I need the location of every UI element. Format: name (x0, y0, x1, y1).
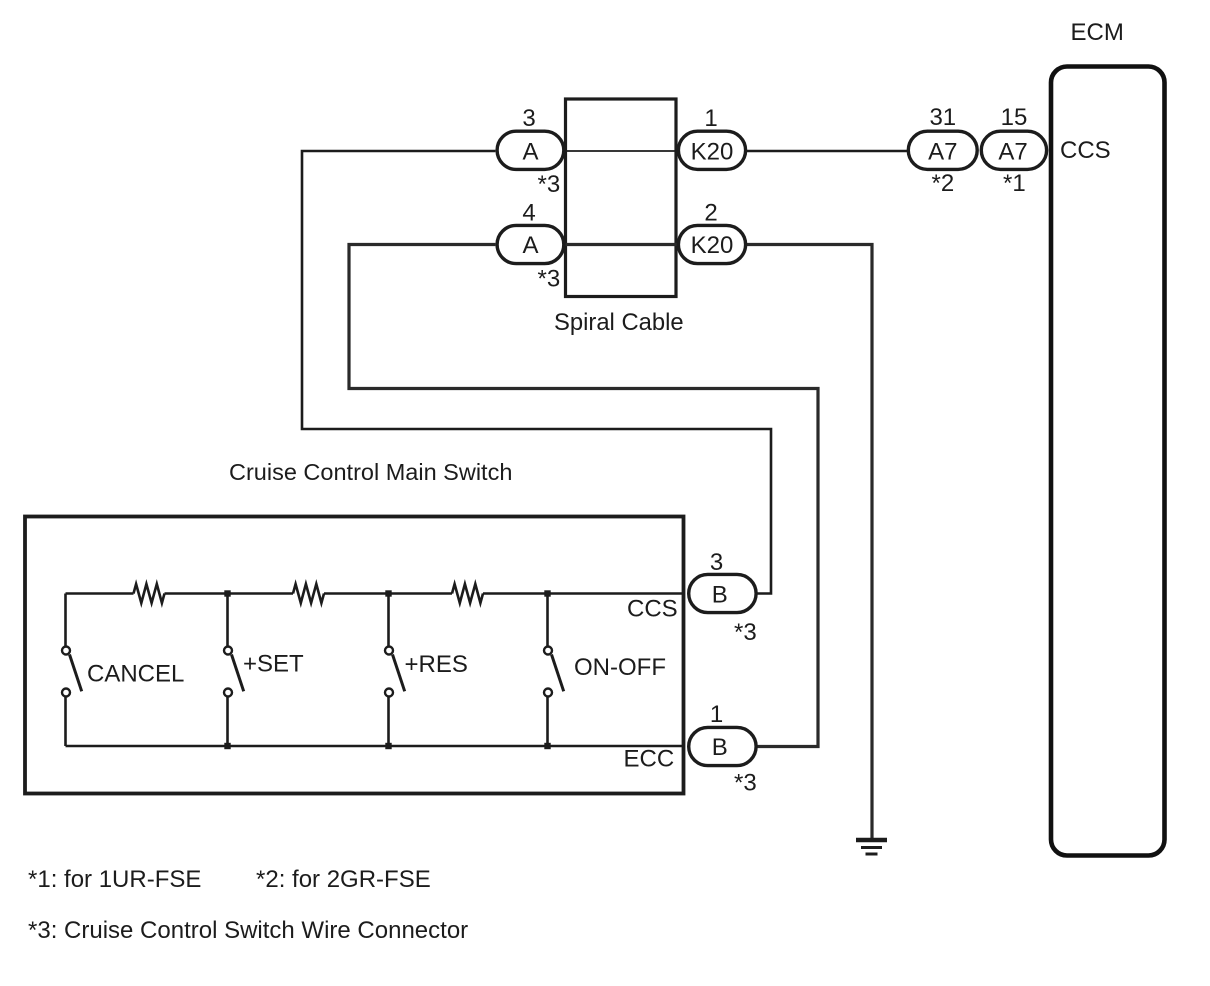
wire K20 pin1 to A7 pin31 (747, 150, 907, 153)
wire spiral cable internal pin4-pin2 (566, 243, 678, 246)
svg-text:A7: A7 (928, 139, 957, 166)
junction dot bottom RES (385, 743, 391, 749)
svg-text:Cruise Control Main Switch: Cruise Control Main Switch (229, 459, 512, 485)
svg-text:K20: K20 (691, 139, 734, 166)
junction dot top RES (385, 590, 391, 596)
junction dot bottom ONOFF (544, 743, 550, 749)
svg-text:31: 31 (929, 104, 956, 131)
wire bottom bus ECC (66, 745, 684, 748)
connector B pin3 (689, 549, 757, 646)
svg-text:*3: Cruise Control Switch Wire: *3: Cruise Control Switch Wire Connector (28, 917, 468, 944)
svg-text:3: 3 (522, 105, 535, 132)
wire top bus CCS (66, 592, 684, 595)
wire spiral cable internal pin3-pin1 (566, 150, 678, 152)
wire CCS net: A pin3 left, down, right, down to B pin3 (302, 151, 771, 594)
svg-text:A: A (522, 139, 538, 166)
connector K20 pin2 (678, 200, 745, 264)
svg-text:K20: K20 (691, 232, 734, 259)
resistor R3 (452, 584, 483, 603)
svg-text:1: 1 (704, 105, 717, 132)
connector A7 pin31 (908, 104, 977, 197)
svg-text:15: 15 (1001, 104, 1028, 131)
svg-text:+RES: +RES (405, 651, 468, 678)
svg-text:*1: *1 (1003, 170, 1026, 197)
svg-text:3: 3 (710, 549, 723, 576)
wire ECC net: A pin4 left, down, right, down to B pin1 (349, 245, 818, 747)
connector A7 pin15 (981, 104, 1046, 197)
svg-text:A7: A7 (998, 139, 1027, 166)
cruise control main switch box SW1 (25, 517, 684, 794)
switch +SET (224, 594, 304, 747)
wire K20 pin2 to ground (747, 245, 872, 841)
svg-text:ON-OFF: ON-OFF (574, 654, 666, 681)
switch +RES (385, 594, 468, 747)
svg-text:+SET: +SET (243, 651, 304, 678)
resistor R2 (293, 584, 324, 603)
svg-text:A: A (522, 232, 538, 259)
svg-text:*2: *2 (932, 170, 955, 197)
spiral cable box J1 (566, 99, 677, 297)
svg-text:B: B (712, 582, 728, 609)
connector K20 pin1 (678, 105, 745, 169)
svg-text:4: 4 (522, 200, 535, 227)
svg-text:ECM: ECM (1071, 19, 1124, 46)
switch CANCEL (62, 594, 184, 747)
svg-text:ECC: ECC (624, 746, 675, 773)
svg-text:CCS: CCS (627, 596, 678, 623)
svg-text:*3: *3 (538, 266, 561, 293)
switch ON-OFF (544, 594, 666, 747)
svg-text:B: B (712, 734, 728, 761)
svg-text:*2: for 2GR-FSE: *2: for 2GR-FSE (256, 866, 431, 893)
ECM box U1 (1051, 67, 1165, 856)
svg-text:CANCEL: CANCEL (87, 661, 184, 688)
ground (856, 840, 887, 854)
svg-text:*3: *3 (734, 770, 757, 797)
connector A pin4 (497, 200, 564, 293)
junction dot top ONOFF (544, 590, 550, 596)
connector B pin1 (689, 701, 757, 797)
junction dot bottom SET (224, 743, 230, 749)
svg-text:*3: *3 (538, 171, 561, 198)
junction dot top SET (224, 590, 230, 596)
svg-text:1: 1 (710, 701, 723, 728)
svg-text:*3: *3 (734, 619, 757, 646)
svg-text:*1: for 1UR-FSE: *1: for 1UR-FSE (28, 866, 201, 893)
connector A pin3 (497, 105, 564, 198)
svg-text:2: 2 (704, 200, 717, 227)
svg-text:Spiral Cable: Spiral Cable (554, 309, 684, 336)
svg-text:CCS: CCS (1060, 137, 1111, 164)
resistor R1 (134, 584, 165, 603)
